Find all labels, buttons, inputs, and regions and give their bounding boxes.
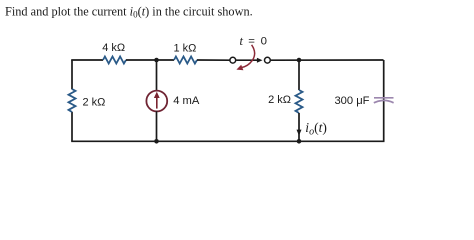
right capacitor branch wire (383, 60, 385, 141)
wire top segment c to switch (197, 59, 230, 61)
right 2k branch wire top (298, 60, 300, 90)
wire top segment d (271, 59, 384, 61)
svg-text:1 kΩ: 1 kΩ (174, 43, 197, 55)
svg-text:2 kΩ: 2 kΩ (268, 94, 291, 106)
switch left contact circle (230, 57, 236, 63)
wire left branch upper (71, 60, 73, 89)
node top middle (154, 58, 159, 63)
capacitor C top plate (374, 97, 394, 99)
svg-text:4 mA: 4 mA (173, 95, 200, 107)
current source arrow (156, 96, 158, 109)
svg-text:0: 0 (261, 36, 267, 48)
svg-text:300 μF: 300 μF (334, 95, 369, 107)
node bottom middle (154, 139, 159, 144)
switch closing arc arrow (red) (241, 45, 254, 68)
resistor R 2k right branch zigzag (296, 90, 303, 113)
resistor R 2k left branch zigzag (69, 89, 76, 112)
svg-text:2 kΩ: 2 kΩ (83, 96, 106, 108)
svg-text:t: t (240, 34, 244, 48)
resistor R 1k zigzag (174, 57, 197, 64)
svg-text:io(t): io(t) (305, 120, 327, 137)
node top right (297, 58, 302, 63)
switch arm wire with arrowhead (236, 59, 257, 61)
node bottom right (297, 139, 302, 144)
current source branch wire top (156, 60, 158, 91)
wire top segment a (71, 59, 103, 61)
io(t) arrowhead (297, 130, 302, 136)
resistor R 4k zigzag (103, 57, 126, 64)
svg-text:Find and plot the current i0(t: Find and plot the current i0(t) in the c… (5, 4, 253, 19)
switch right contact circle (265, 57, 271, 63)
capacitor C bottom curved plate (374, 100, 394, 102)
wire left branch lower (71, 112, 73, 142)
wire top segment b (126, 59, 174, 61)
current source circle 4mA (146, 91, 167, 112)
current source branch wire bottom (156, 111, 158, 141)
right 2k branch wire bottom with io arrow (298, 113, 300, 141)
svg-text:=: = (248, 36, 255, 48)
svg-text:4 kΩ: 4 kΩ (102, 42, 125, 54)
bottom wire (71, 140, 384, 142)
